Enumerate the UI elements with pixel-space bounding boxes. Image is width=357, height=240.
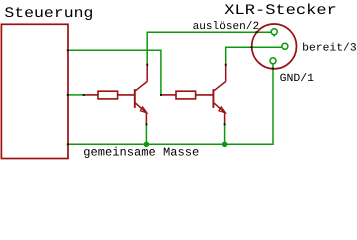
XLR pin 2 (271, 29, 277, 35)
svg-text:XLR-Stecker: XLR-Stecker (224, 3, 337, 19)
wire box to R1 (68, 94, 84, 96)
wire Q1 emitter to masse (145, 124, 147, 144)
transistor Q1 (135, 63, 147, 125)
junction dot 1 (144, 142, 150, 148)
box Steuerung (1, 24, 68, 158)
wire overlap junction pixels (67, 31, 274, 145)
svg-text:Steuerung: Steuerung (4, 6, 93, 22)
wire Q2 emitter to masse (224, 124, 226, 144)
svg-text:bereit/3: bereit/3 (302, 43, 357, 55)
resistor R1 (83, 91, 134, 99)
XLR pin 3 (282, 43, 288, 49)
wire ausloesen net (147, 32, 271, 63)
wire bereit net (226, 47, 282, 63)
svg-text:GND/1: GND/1 (280, 73, 315, 85)
transistor Q2 (213, 63, 225, 125)
svg-text:auslösen/2: auslösen/2 (193, 21, 260, 33)
wire net1 box to corner down to R2 (68, 50, 161, 95)
junction dot 2 (222, 142, 228, 148)
svg-text:gemeinsame Masse: gemeinsame Masse (83, 146, 199, 160)
XLR connector circle (252, 24, 297, 69)
resistor R2 (161, 91, 213, 99)
wire masse (68, 64, 273, 144)
XLR pin 1 (270, 58, 276, 64)
pin 2 inner stub (273, 35, 275, 37)
